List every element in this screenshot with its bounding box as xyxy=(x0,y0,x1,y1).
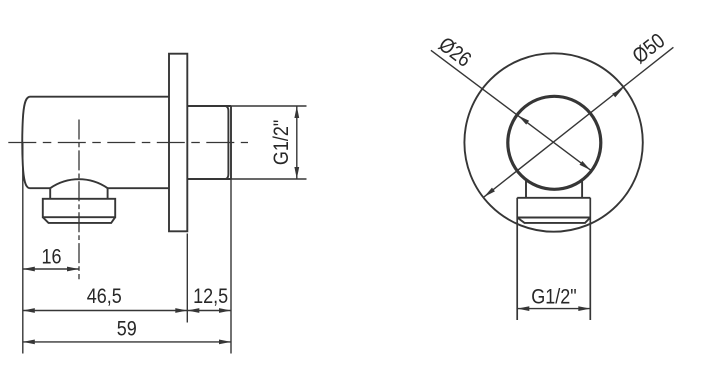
svg-text:16: 16 xyxy=(41,245,61,269)
svg-text:Ø50: Ø50 xyxy=(628,29,669,69)
svg-text:59: 59 xyxy=(117,317,137,341)
svg-text:G1/2": G1/2" xyxy=(531,285,576,309)
svg-text:G1/2": G1/2" xyxy=(270,120,294,165)
svg-text:12,5: 12,5 xyxy=(193,285,228,309)
svg-text:46,5: 46,5 xyxy=(87,285,122,309)
svg-text:Ø26: Ø26 xyxy=(434,33,475,72)
